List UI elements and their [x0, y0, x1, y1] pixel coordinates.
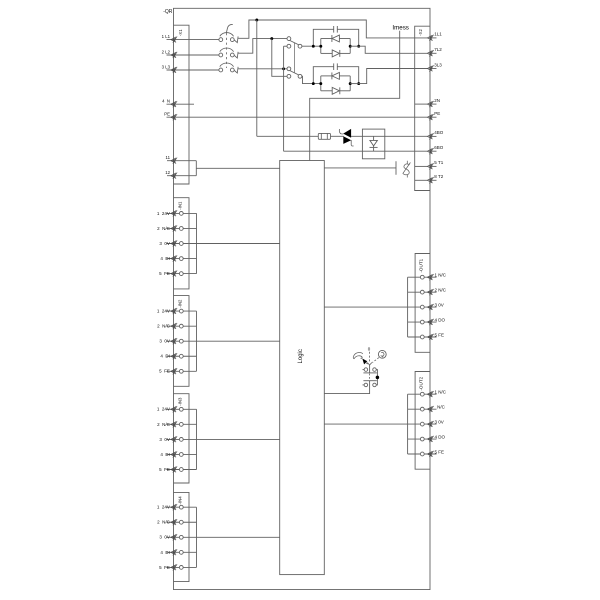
svg-text:-X2: -X2	[418, 28, 423, 35]
svg-text:-IN4: -IN4	[178, 496, 183, 505]
svg-text:5 FE: 5 FE	[159, 565, 170, 570]
svg-text:3 0V: 3 0V	[435, 303, 444, 308]
svg-text:4 DI: 4 DI	[160, 452, 170, 457]
svg-text:2 L2: 2 L2	[162, 49, 171, 54]
svg-text:1 24V: 1 24V	[157, 211, 170, 216]
svg-text:1 N/C: 1 N/C	[435, 273, 447, 278]
svg-text:-QR: -QR	[163, 9, 173, 15]
svg-text:5 FE: 5 FE	[435, 450, 445, 455]
svg-text:7L2: 7L2	[434, 47, 442, 52]
svg-text:4BO: 4BO	[434, 130, 444, 135]
svg-text:2 N/C: 2 N/C	[157, 324, 171, 329]
svg-text:1 L1: 1 L1	[162, 34, 171, 39]
svg-text:12: 12	[165, 170, 170, 175]
svg-text:Logic: Logic	[298, 349, 304, 363]
svg-text:1 N/C: 1 N/C	[435, 390, 447, 395]
svg-text:-IN3: -IN3	[178, 397, 183, 406]
svg-text:3 0V: 3 0V	[159, 437, 170, 442]
svg-text:5 FE: 5 FE	[159, 271, 170, 276]
svg-text:8 T2: 8 T2	[434, 174, 444, 179]
svg-text:4 DI: 4 DI	[160, 256, 170, 261]
svg-text:11: 11	[166, 155, 171, 160]
svg-text:3 0V: 3 0V	[159, 241, 170, 246]
svg-text:-OUT2: -OUT2	[419, 376, 424, 390]
svg-text:2 N/C: 2 N/C	[157, 422, 171, 427]
svg-text:Imess: Imess	[392, 25, 409, 32]
svg-text:3 0V: 3 0V	[435, 420, 444, 425]
svg-text:2N: 2N	[434, 98, 440, 103]
svg-text:1 24V: 1 24V	[157, 407, 170, 412]
svg-text:6BO: 6BO	[434, 145, 444, 150]
svg-text:5 T1: 5 T1	[434, 160, 444, 165]
svg-text:N/C: N/C	[437, 405, 446, 410]
svg-text:2 N/C: 2 N/C	[157, 520, 171, 525]
svg-text:-IN2: -IN2	[178, 299, 183, 308]
svg-text:-OUT1: -OUT1	[419, 258, 424, 272]
svg-text:3L3: 3L3	[434, 62, 442, 67]
svg-text:1L1: 1L1	[434, 32, 442, 37]
svg-text:3 0V: 3 0V	[159, 535, 170, 540]
svg-text:1 24V: 1 24V	[157, 505, 170, 510]
svg-text:2 N/C: 2 N/C	[435, 288, 447, 293]
svg-text:4 DO: 4 DO	[435, 318, 446, 323]
svg-text:4 N: 4 N	[162, 99, 170, 104]
svg-text:PE: PE	[434, 111, 440, 116]
svg-text:5 FE: 5 FE	[435, 333, 445, 338]
svg-text:1 24V: 1 24V	[157, 309, 170, 314]
svg-text:5 FE: 5 FE	[159, 369, 170, 374]
svg-text:-X1: -X1	[178, 29, 183, 36]
svg-text:4 DI: 4 DI	[160, 550, 170, 555]
svg-text:4 DO: 4 DO	[435, 435, 446, 440]
svg-text:4 DI: 4 DI	[160, 354, 170, 359]
svg-text:5 FE: 5 FE	[159, 467, 170, 472]
svg-text:PE: PE	[164, 112, 170, 117]
svg-text:3 0V: 3 0V	[159, 339, 170, 344]
svg-text:-IN1: -IN1	[178, 201, 183, 210]
svg-text:2 N/C: 2 N/C	[157, 226, 171, 231]
svg-text:3 L3: 3 L3	[162, 64, 171, 69]
